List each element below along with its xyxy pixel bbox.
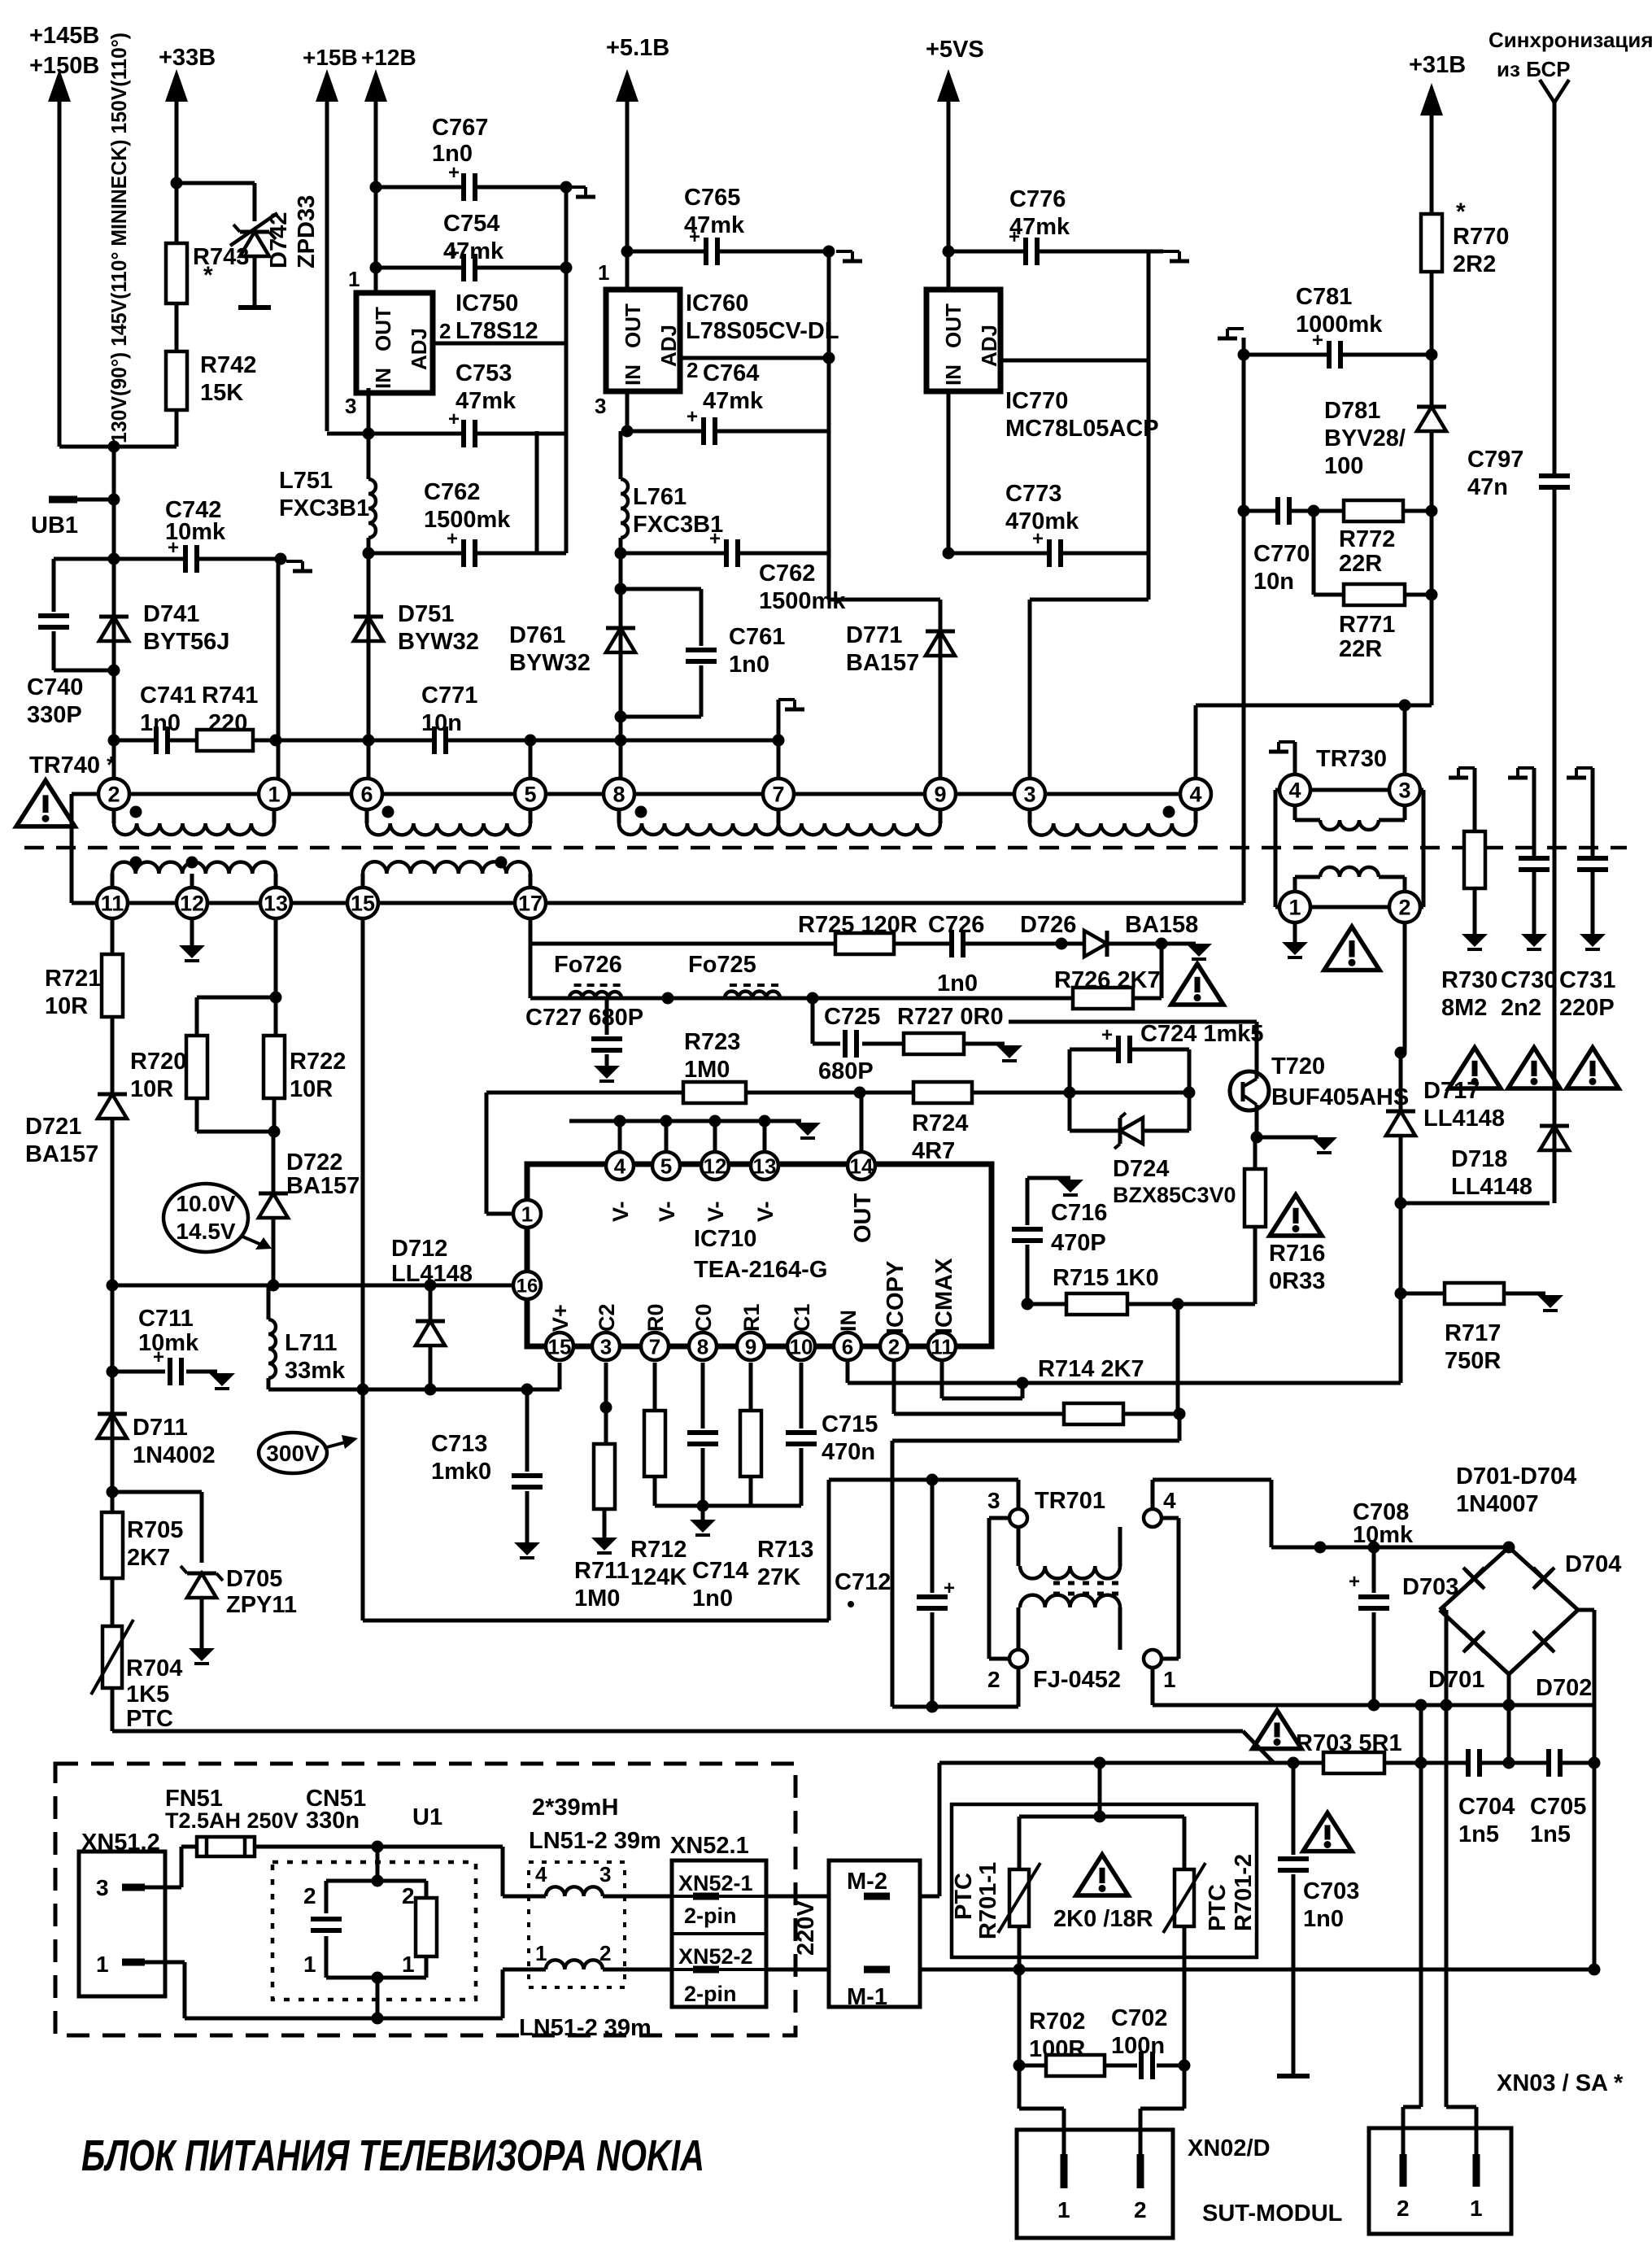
svg-text:16: 16 bbox=[517, 1276, 538, 1298]
svg-text:R717: R717 bbox=[1445, 1320, 1501, 1346]
svg-text:C781: C781 bbox=[1296, 284, 1352, 310]
svg-text:7: 7 bbox=[649, 1334, 660, 1359]
svg-text:MC78L05ACP: MC78L05ACP bbox=[1005, 416, 1159, 442]
svg-text:+12B: +12B bbox=[361, 45, 416, 70]
svg-text:12: 12 bbox=[704, 1154, 727, 1178]
svg-text:LN51-2 39m: LN51-2 39m bbox=[519, 2015, 652, 2041]
svg-text:1000mk: 1000mk bbox=[1296, 312, 1383, 338]
svg-text:R702: R702 bbox=[1029, 2009, 1085, 2035]
svg-text:1n0: 1n0 bbox=[432, 141, 473, 167]
svg-text:11: 11 bbox=[931, 1334, 953, 1359]
svg-text:C725: C725 bbox=[824, 1004, 880, 1030]
svg-text:1n0: 1n0 bbox=[937, 971, 978, 997]
svg-text:10: 10 bbox=[790, 1334, 813, 1359]
svg-text:C776: C776 bbox=[1009, 186, 1066, 212]
svg-text:130V(90°) 145V(110° MININECK): 130V(90°) 145V(110° MININECK) 150V(110°) bbox=[107, 33, 131, 443]
svg-text:R711: R711 bbox=[574, 1558, 630, 1584]
svg-text:2: 2 bbox=[687, 358, 698, 382]
svg-text:47mk: 47mk bbox=[1009, 214, 1070, 240]
svg-text:6: 6 bbox=[360, 783, 373, 807]
svg-text:*: * bbox=[1456, 198, 1466, 225]
svg-text:SUT-MODUL: SUT-MODUL bbox=[1202, 2201, 1342, 2227]
svg-text:47n: 47n bbox=[1467, 474, 1508, 500]
svg-text:IC750: IC750 bbox=[455, 290, 518, 316]
svg-text:C0: C0 bbox=[691, 1303, 716, 1332]
svg-text:D702: D702 bbox=[1536, 1675, 1592, 1701]
svg-text:V+: V+ bbox=[548, 1304, 573, 1332]
svg-text:2*39mH: 2*39mH bbox=[532, 1795, 618, 1821]
svg-text:C724 1mk5: C724 1mk5 bbox=[1140, 1021, 1264, 1047]
svg-text:+: + bbox=[1101, 1024, 1113, 1046]
svg-text:C715: C715 bbox=[822, 1411, 878, 1437]
svg-text:+15B: +15B bbox=[303, 45, 358, 70]
svg-text:5: 5 bbox=[524, 783, 536, 807]
svg-text:*: * bbox=[203, 262, 213, 289]
svg-text:5: 5 bbox=[660, 1154, 672, 1178]
svg-text:4: 4 bbox=[614, 1154, 626, 1178]
svg-text:L711: L711 bbox=[285, 1330, 338, 1356]
svg-text:D701-D704: D701-D704 bbox=[1456, 1463, 1576, 1490]
svg-text:D703: D703 bbox=[1402, 1574, 1458, 1600]
svg-text:2: 2 bbox=[987, 1667, 1000, 1692]
svg-text:D712: D712 bbox=[391, 1236, 447, 1262]
svg-text:D771: D771 bbox=[846, 622, 902, 648]
svg-text:R701-2: R701-2 bbox=[1231, 1854, 1257, 1931]
svg-text:1M0: 1M0 bbox=[574, 1586, 620, 1612]
svg-text:C703: C703 bbox=[1303, 1878, 1359, 1904]
svg-text:10mk: 10mk bbox=[1353, 1522, 1414, 1548]
svg-text:BYW32: BYW32 bbox=[398, 629, 479, 655]
svg-text:+: + bbox=[944, 1577, 955, 1599]
svg-text:ZPY11: ZPY11 bbox=[226, 1592, 297, 1618]
svg-text:R725 120R: R725 120R bbox=[798, 912, 918, 938]
svg-text:R720: R720 bbox=[130, 1049, 186, 1075]
svg-text:4R7: 4R7 bbox=[912, 1138, 955, 1164]
svg-text:13: 13 bbox=[753, 1154, 777, 1178]
svg-text:9: 9 bbox=[745, 1334, 756, 1359]
svg-text:C773: C773 bbox=[1005, 481, 1061, 507]
svg-text:TR730: TR730 bbox=[1316, 746, 1387, 772]
svg-text:15: 15 bbox=[351, 892, 375, 916]
svg-text:300V: 300V bbox=[266, 1441, 320, 1466]
svg-text:ADJ: ADJ bbox=[656, 325, 681, 367]
svg-text:22R: 22R bbox=[1339, 636, 1382, 662]
svg-text:R714 2K7: R714 2K7 bbox=[1038, 1356, 1144, 1382]
svg-text:47mk: 47mk bbox=[703, 388, 764, 414]
svg-text:R715 1K0: R715 1K0 bbox=[1053, 1265, 1159, 1291]
svg-text:47mk: 47mk bbox=[684, 212, 745, 238]
svg-text:C716: C716 bbox=[1051, 1200, 1107, 1226]
svg-text:4: 4 bbox=[1189, 783, 1201, 807]
svg-text:C713: C713 bbox=[431, 1431, 487, 1457]
svg-text:1K5: 1K5 bbox=[126, 1681, 169, 1708]
svg-text:1: 1 bbox=[1057, 2197, 1070, 2222]
svg-text:C764: C764 bbox=[703, 360, 759, 386]
svg-text:BA157: BA157 bbox=[25, 1141, 98, 1167]
svg-text:C741: C741 bbox=[140, 683, 196, 709]
svg-text:Синхронизация: Синхронизация bbox=[1489, 28, 1652, 52]
svg-text:+5.1B: +5.1B bbox=[606, 35, 669, 61]
svg-text:ADJ: ADJ bbox=[977, 325, 1001, 367]
svg-text:D717: D717 bbox=[1423, 1078, 1480, 1104]
svg-text:L751: L751 bbox=[279, 468, 333, 494]
svg-text:LN51-2 39m: LN51-2 39m bbox=[529, 1828, 661, 1854]
svg-text:D722: D722 bbox=[286, 1149, 342, 1176]
svg-text:3: 3 bbox=[1023, 783, 1035, 807]
svg-text:XN52-2: XN52-2 bbox=[678, 1944, 753, 1969]
svg-text:1: 1 bbox=[402, 1952, 415, 1977]
svg-text:470mk: 470mk bbox=[1005, 508, 1079, 534]
svg-text:C2: C2 bbox=[595, 1303, 619, 1332]
svg-text:из БСР: из БСР bbox=[1497, 57, 1571, 81]
svg-text:ICOPY: ICOPY bbox=[883, 1261, 909, 1334]
svg-text:R722: R722 bbox=[290, 1049, 346, 1075]
svg-text:T2.5AH 250V: T2.5AH 250V bbox=[165, 1808, 299, 1833]
svg-text:OUT: OUT bbox=[941, 303, 965, 348]
svg-text:C726: C726 bbox=[928, 912, 984, 938]
svg-text:BUF405AHS: BUF405AHS bbox=[1271, 1084, 1409, 1110]
svg-text:C740: C740 bbox=[27, 674, 83, 700]
svg-text:V-: V- bbox=[753, 1201, 778, 1222]
svg-text:Fo725: Fo725 bbox=[688, 952, 756, 978]
svg-text:R724: R724 bbox=[912, 1110, 968, 1136]
svg-text:BYW32: BYW32 bbox=[509, 650, 591, 676]
svg-text:IN: IN bbox=[836, 1310, 861, 1332]
svg-text:10n: 10n bbox=[421, 710, 462, 736]
svg-text:FXC3B1: FXC3B1 bbox=[279, 495, 369, 521]
svg-text:R730: R730 bbox=[1441, 967, 1497, 993]
svg-text:PTC: PTC bbox=[951, 1873, 977, 1920]
svg-text:33mk: 33mk bbox=[285, 1358, 346, 1384]
svg-text:C762: C762 bbox=[424, 479, 480, 505]
svg-text:2-pin: 2-pin bbox=[684, 1904, 737, 1928]
svg-text:BYV28/: BYV28/ bbox=[1324, 425, 1406, 451]
svg-text:D704: D704 bbox=[1565, 1551, 1621, 1577]
svg-text:+31B: +31B bbox=[1409, 52, 1466, 78]
svg-text:C705: C705 bbox=[1530, 1794, 1586, 1820]
svg-text:R772: R772 bbox=[1339, 526, 1395, 552]
svg-text:+: + bbox=[709, 528, 721, 550]
svg-text:1n0: 1n0 bbox=[1303, 1906, 1344, 1932]
svg-text:0R33: 0R33 bbox=[1269, 1268, 1325, 1294]
svg-text:XN52-1: XN52-1 bbox=[678, 1871, 753, 1895]
svg-text:C771: C771 bbox=[421, 683, 477, 709]
svg-text:OUT: OUT bbox=[621, 303, 645, 348]
svg-text:1n0: 1n0 bbox=[140, 710, 181, 736]
svg-text:1n0: 1n0 bbox=[692, 1586, 733, 1612]
svg-text:10R: 10R bbox=[45, 993, 88, 1019]
svg-text:3: 3 bbox=[96, 1875, 109, 1900]
svg-text:C797: C797 bbox=[1467, 447, 1523, 473]
svg-text:3: 3 bbox=[345, 394, 356, 418]
svg-text:R771: R771 bbox=[1339, 612, 1395, 638]
svg-text:C731: C731 bbox=[1559, 967, 1615, 993]
svg-text:TR701: TR701 bbox=[1035, 1488, 1105, 1514]
svg-text:100: 100 bbox=[1324, 453, 1363, 479]
svg-text:1: 1 bbox=[1288, 896, 1301, 920]
svg-text:1: 1 bbox=[535, 1941, 547, 1965]
svg-text:1n5: 1n5 bbox=[1458, 1821, 1499, 1847]
svg-text:IC760: IC760 bbox=[686, 290, 748, 316]
svg-text:R726 2K7: R726 2K7 bbox=[1054, 967, 1161, 993]
svg-text:12: 12 bbox=[180, 892, 204, 916]
svg-text:BYT56J: BYT56J bbox=[143, 629, 229, 655]
svg-text:V-: V- bbox=[704, 1201, 728, 1222]
svg-text:2: 2 bbox=[1134, 2197, 1147, 2222]
svg-text:1500mk: 1500mk bbox=[424, 507, 511, 533]
svg-text:D701: D701 bbox=[1428, 1667, 1484, 1693]
svg-text:10.0V: 10.0V bbox=[176, 1191, 235, 1216]
svg-text:2: 2 bbox=[303, 1883, 316, 1908]
svg-text:OUT: OUT bbox=[371, 307, 395, 351]
svg-text:C730: C730 bbox=[1501, 967, 1557, 993]
svg-text:2-pin: 2-pin bbox=[684, 1982, 737, 2006]
svg-text:D721: D721 bbox=[25, 1114, 81, 1140]
svg-text:D751: D751 bbox=[398, 601, 454, 627]
svg-text:+145B: +145B bbox=[29, 23, 99, 49]
svg-text:2: 2 bbox=[439, 319, 451, 343]
svg-text:2: 2 bbox=[888, 1334, 900, 1359]
svg-text:PTC: PTC bbox=[1205, 1884, 1231, 1931]
svg-text:L78S12: L78S12 bbox=[455, 318, 538, 344]
svg-text:R727 0R0: R727 0R0 bbox=[897, 1004, 1004, 1030]
svg-text:1N4002: 1N4002 bbox=[133, 1442, 216, 1468]
svg-text:+33B: +33B bbox=[159, 45, 216, 71]
svg-text:14: 14 bbox=[850, 1154, 874, 1178]
svg-text:C712: C712 bbox=[835, 1569, 891, 1595]
svg-text:8M2: 8M2 bbox=[1441, 995, 1487, 1021]
svg-text:C765: C765 bbox=[684, 185, 740, 211]
svg-text:4: 4 bbox=[535, 1862, 547, 1887]
svg-text:M-2: M-2 bbox=[847, 1869, 887, 1895]
svg-text:1n0: 1n0 bbox=[729, 652, 769, 678]
svg-text:3: 3 bbox=[1398, 779, 1410, 803]
svg-text:27K: 27K bbox=[757, 1564, 800, 1590]
svg-text:8: 8 bbox=[697, 1334, 708, 1359]
svg-text:1: 1 bbox=[1163, 1667, 1176, 1692]
svg-text:1: 1 bbox=[348, 267, 360, 291]
svg-text:10mk: 10mk bbox=[165, 519, 226, 545]
svg-text:D761: D761 bbox=[509, 622, 565, 648]
svg-text:XN02/D: XN02/D bbox=[1188, 2135, 1271, 2161]
svg-text:V-: V- bbox=[608, 1201, 633, 1222]
svg-text:IN: IN bbox=[371, 368, 395, 389]
svg-text:R721: R721 bbox=[45, 966, 101, 992]
svg-text:BZX85C3V0: BZX85C3V0 bbox=[1113, 1183, 1236, 1207]
svg-text:C770: C770 bbox=[1253, 541, 1310, 567]
svg-text:220: 220 bbox=[208, 710, 247, 736]
svg-text:XN52.1: XN52.1 bbox=[670, 1833, 749, 1859]
svg-text:D726: D726 bbox=[1020, 912, 1076, 938]
svg-text:L761: L761 bbox=[633, 484, 687, 510]
svg-text:C754: C754 bbox=[443, 211, 499, 237]
svg-text:IC770: IC770 bbox=[1005, 388, 1068, 414]
svg-text:1: 1 bbox=[521, 1202, 533, 1226]
svg-text:+: + bbox=[687, 406, 698, 428]
svg-text:124K: 124K bbox=[630, 1564, 687, 1590]
svg-text:10R: 10R bbox=[290, 1076, 333, 1102]
svg-text:V-: V- bbox=[655, 1201, 679, 1222]
svg-text:2n2: 2n2 bbox=[1501, 995, 1541, 1021]
svg-text:+5VS: +5VS bbox=[926, 37, 984, 63]
svg-text:UB1: UB1 bbox=[31, 513, 78, 539]
svg-text:680P: 680P bbox=[818, 1058, 874, 1084]
svg-text:R713: R713 bbox=[757, 1537, 813, 1563]
svg-text:470P: 470P bbox=[1051, 1230, 1106, 1256]
svg-text:C702: C702 bbox=[1111, 2005, 1167, 2031]
svg-text:XN03 / SA *: XN03 / SA * bbox=[1497, 2070, 1624, 2096]
svg-text:1: 1 bbox=[598, 260, 609, 285]
svg-text:100n: 100n bbox=[1111, 2033, 1165, 2059]
svg-text:+150B: +150B bbox=[29, 53, 99, 79]
svg-text:22R: 22R bbox=[1339, 551, 1382, 577]
svg-text:17: 17 bbox=[518, 892, 543, 916]
svg-text:C704: C704 bbox=[1458, 1794, 1515, 1820]
svg-text:4: 4 bbox=[1288, 779, 1301, 803]
svg-text:R704: R704 bbox=[126, 1655, 182, 1681]
svg-text:1: 1 bbox=[268, 783, 280, 807]
svg-text:2: 2 bbox=[1398, 896, 1410, 920]
svg-text:BA157: BA157 bbox=[846, 650, 919, 676]
svg-text:9: 9 bbox=[934, 783, 946, 807]
svg-text:TR740 *: TR740 * bbox=[29, 752, 116, 779]
svg-text:1n5: 1n5 bbox=[1530, 1821, 1571, 1847]
svg-text:БЛОК ПИТАНИЯ ТЕЛЕВИЗОРА NOKIA: БЛОК ПИТАНИЯ ТЕЛЕВИЗОРА NOKIA bbox=[81, 2131, 704, 2180]
svg-text:220V: 220V bbox=[793, 1900, 819, 1956]
svg-text:LL4148: LL4148 bbox=[391, 1261, 473, 1287]
svg-text:1mk0: 1mk0 bbox=[431, 1459, 491, 1485]
svg-text:Fo726: Fo726 bbox=[554, 952, 622, 978]
svg-text:4: 4 bbox=[1163, 1488, 1176, 1513]
svg-text:C714: C714 bbox=[692, 1558, 748, 1584]
svg-text:BA157: BA157 bbox=[286, 1173, 360, 1199]
svg-text:6: 6 bbox=[842, 1334, 853, 1359]
svg-text:TEA-2164-G: TEA-2164-G bbox=[694, 1257, 827, 1283]
svg-text:3: 3 bbox=[599, 1862, 611, 1887]
svg-text:10R: 10R bbox=[130, 1076, 173, 1102]
svg-text:BA158: BA158 bbox=[1125, 912, 1198, 938]
svg-text:1: 1 bbox=[1470, 2196, 1483, 2221]
svg-text:T720: T720 bbox=[1271, 1053, 1325, 1080]
svg-text:47mk: 47mk bbox=[443, 238, 504, 264]
svg-text:D724: D724 bbox=[1113, 1156, 1169, 1182]
svg-text:C753: C753 bbox=[455, 360, 512, 386]
svg-text:R1: R1 bbox=[739, 1303, 764, 1332]
svg-text:C727 680P: C727 680P bbox=[525, 1005, 643, 1031]
svg-text:ADJ: ADJ bbox=[407, 328, 431, 370]
svg-text:47mk: 47mk bbox=[455, 388, 517, 414]
svg-text:LL4148: LL4148 bbox=[1451, 1174, 1532, 1200]
svg-text:1: 1 bbox=[303, 1952, 316, 1977]
svg-text:D742: D742 bbox=[266, 212, 292, 268]
svg-text:+: + bbox=[1349, 1571, 1360, 1593]
svg-text:U1: U1 bbox=[412, 1804, 442, 1830]
svg-text:D741: D741 bbox=[143, 601, 199, 627]
svg-text:C711: C711 bbox=[138, 1306, 194, 1332]
svg-text:15: 15 bbox=[548, 1334, 572, 1359]
svg-text:2: 2 bbox=[402, 1883, 415, 1908]
svg-text:D711: D711 bbox=[133, 1415, 188, 1441]
svg-text:R705: R705 bbox=[127, 1517, 183, 1543]
svg-text:2: 2 bbox=[107, 783, 120, 807]
svg-text:2: 2 bbox=[1397, 2196, 1410, 2221]
svg-text:10mk: 10mk bbox=[138, 1330, 199, 1356]
svg-text:R741: R741 bbox=[202, 683, 258, 709]
svg-text:1: 1 bbox=[96, 1952, 109, 1977]
svg-text:LL4148: LL4148 bbox=[1423, 1106, 1505, 1132]
svg-text:FJ-0452: FJ-0452 bbox=[1033, 1667, 1121, 1693]
svg-text:R712: R712 bbox=[630, 1537, 687, 1563]
svg-text:IN: IN bbox=[941, 364, 965, 386]
svg-text:L78S05CV-DL: L78S05CV-DL bbox=[686, 318, 839, 344]
svg-text:10n: 10n bbox=[1253, 569, 1294, 595]
svg-text:15K: 15K bbox=[200, 380, 243, 406]
svg-text:330n: 330n bbox=[306, 1808, 360, 1834]
svg-text:C767: C767 bbox=[432, 115, 488, 141]
svg-text:750R: 750R bbox=[1445, 1348, 1501, 1374]
svg-text:7: 7 bbox=[772, 783, 784, 807]
svg-text:R742: R742 bbox=[200, 352, 256, 378]
svg-text:1M0: 1M0 bbox=[684, 1057, 730, 1083]
svg-text:3: 3 bbox=[595, 394, 606, 418]
svg-text:14.5V: 14.5V bbox=[176, 1219, 235, 1244]
svg-text:IC710: IC710 bbox=[694, 1226, 756, 1252]
svg-text:D781: D781 bbox=[1324, 398, 1380, 424]
svg-text:13: 13 bbox=[264, 892, 288, 916]
svg-text:8: 8 bbox=[612, 783, 625, 807]
svg-text:2K7: 2K7 bbox=[127, 1545, 170, 1571]
svg-text:OUT: OUT bbox=[850, 1193, 876, 1244]
svg-text:330P: 330P bbox=[27, 702, 82, 728]
svg-text:2R2: 2R2 bbox=[1453, 251, 1496, 277]
svg-text:PTC: PTC bbox=[126, 1706, 173, 1732]
svg-text:R701-1: R701-1 bbox=[975, 1862, 1001, 1939]
svg-text:470n: 470n bbox=[822, 1439, 875, 1465]
svg-text:ZPD33: ZPD33 bbox=[294, 195, 320, 268]
svg-text:C1: C1 bbox=[790, 1303, 814, 1332]
svg-text:IN: IN bbox=[621, 364, 645, 386]
svg-text:M-1: M-1 bbox=[847, 1984, 887, 2010]
svg-text:C762: C762 bbox=[759, 560, 815, 587]
svg-text:D705: D705 bbox=[226, 1566, 282, 1592]
svg-text:ICMAX: ICMAX bbox=[931, 1258, 957, 1334]
svg-text:220P: 220P bbox=[1559, 995, 1615, 1021]
svg-text:R723: R723 bbox=[684, 1029, 740, 1055]
svg-text:C761: C761 bbox=[729, 624, 785, 650]
svg-text:R770: R770 bbox=[1453, 224, 1509, 250]
svg-text:11: 11 bbox=[101, 892, 124, 916]
svg-text:D718: D718 bbox=[1451, 1146, 1507, 1172]
svg-text:R716: R716 bbox=[1269, 1241, 1325, 1267]
svg-text:3: 3 bbox=[987, 1488, 1000, 1513]
svg-text:R0: R0 bbox=[643, 1303, 668, 1332]
svg-text:1N4007: 1N4007 bbox=[1456, 1491, 1539, 1517]
svg-text:2K0 /18R: 2K0 /18R bbox=[1053, 1906, 1153, 1932]
svg-text:3: 3 bbox=[600, 1334, 612, 1359]
